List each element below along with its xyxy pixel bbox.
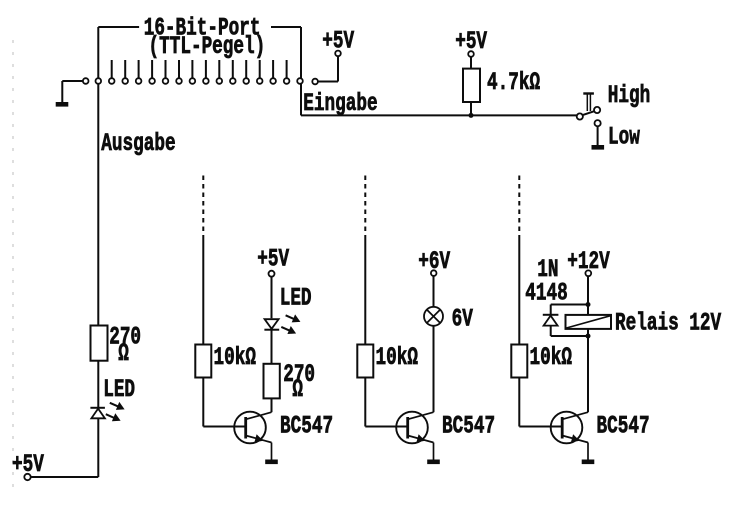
svg-text:+5V: +5V xyxy=(12,450,45,479)
terminal +5V (port right) xyxy=(335,51,341,57)
port pin 7 xyxy=(176,78,182,84)
svg-text:Ausgabe: Ausgabe xyxy=(101,129,175,158)
lamp 6V xyxy=(424,307,443,326)
port pin 12 xyxy=(243,78,249,84)
wire +6V to lamp xyxy=(433,276,435,307)
wire port bracket top-right xyxy=(271,26,301,28)
port pin 11 xyxy=(230,78,236,84)
wire 10k to base (Q1) xyxy=(202,378,204,427)
wire diode anode down xyxy=(550,326,552,336)
port pin 6 lead xyxy=(165,60,167,78)
wire plug to +5V xyxy=(318,81,338,83)
port pin 9 lead xyxy=(205,60,207,78)
svg-text:Ω: Ω xyxy=(118,339,129,368)
svg-text:BC547: BC547 xyxy=(597,412,650,441)
svg-text:Ω: Ω xyxy=(292,375,303,404)
scan artifact left edge xyxy=(12,40,14,492)
port pin 9 xyxy=(203,78,209,84)
svg-text:4.7kΩ: 4.7kΩ xyxy=(487,68,540,97)
wire R pullup to Eingabe line xyxy=(470,102,472,115)
switch lever knob xyxy=(594,107,600,113)
port pin 3 xyxy=(122,78,128,84)
wire 10k to base (Q3) xyxy=(518,378,520,427)
port pin 8 lead xyxy=(191,60,193,78)
wire base (Q3) xyxy=(519,426,562,428)
port pin 10 xyxy=(217,78,223,84)
wire base (Q1) xyxy=(203,426,245,428)
wire port left / Ausgabe column xyxy=(97,27,99,326)
switch lever xyxy=(583,111,595,115)
LED D2 light arrows xyxy=(281,314,300,334)
wire LED to 270 (Q1) xyxy=(271,330,273,364)
switch Low contact xyxy=(595,120,601,126)
svg-text:LED: LED xyxy=(103,375,135,404)
svg-text:10kΩ: 10kΩ xyxy=(530,343,572,372)
svg-text:Eingabe: Eingabe xyxy=(303,89,377,118)
terminal +5V (bottom) xyxy=(24,474,30,480)
wire 10k to base (Q2) xyxy=(364,378,366,427)
port pin 11 lead xyxy=(232,60,234,78)
ground (left) xyxy=(56,102,69,107)
svg-text:(TTL-Pegel): (TTL-Pegel) xyxy=(149,32,266,61)
relay coil xyxy=(566,315,612,329)
port pin 10 lead xyxy=(218,60,220,78)
+5V plug contact xyxy=(312,79,318,85)
wire to diode cathode xyxy=(550,305,552,315)
transistor Q1 BC547 xyxy=(234,412,278,464)
port pin 1 xyxy=(96,78,102,84)
transistor Q3 BC547 xyxy=(551,412,595,464)
svg-text:10kΩ: 10kΩ xyxy=(376,343,418,372)
diode 1N4148 xyxy=(543,315,559,326)
port pin 6 xyxy=(163,78,169,84)
wire port bracket top-left xyxy=(98,26,139,28)
svg-text:6V: 6V xyxy=(452,305,474,334)
junction Eingabe/pullup xyxy=(469,113,474,118)
wire R270 to LED xyxy=(97,361,99,408)
svg-text:10kΩ: 10kΩ xyxy=(214,343,256,372)
wire up to +5V xyxy=(337,56,339,81)
port pin 14 lead xyxy=(272,60,274,78)
port pin 15 lead xyxy=(286,60,288,78)
ground (Low) xyxy=(592,145,605,150)
resistor 4.7k xyxy=(463,69,480,102)
wire +5V to LED (Q1) xyxy=(271,277,273,319)
wire collector (Q1) xyxy=(271,398,273,412)
port pin 2 lead xyxy=(111,60,113,78)
svg-text:+5V: +5V xyxy=(257,245,290,274)
wire relay to junction xyxy=(587,329,589,336)
svg-text:Relais 12V: Relais 12V xyxy=(615,309,722,338)
terminal +5V (pullup) xyxy=(468,51,474,57)
port pin 4 xyxy=(136,78,142,84)
svg-text:LED: LED xyxy=(280,284,312,313)
switch pole contact xyxy=(577,113,583,119)
resistor 10k (Q1) xyxy=(195,345,211,378)
LED D1 (output branch) xyxy=(90,408,105,419)
port pin 16 xyxy=(297,78,303,84)
port pin 7 lead xyxy=(178,60,180,78)
resistor 10k (Q3) xyxy=(511,345,527,378)
resistor 270 (Q1) xyxy=(264,364,280,399)
wire to 10k (Q1) xyxy=(202,235,204,345)
junction diode bottom xyxy=(586,334,591,339)
wire diode loop bottom xyxy=(551,335,588,337)
LED D2 (Q1 collector) xyxy=(264,319,279,330)
junction diode top xyxy=(586,302,591,307)
port pin 14 xyxy=(270,78,276,84)
port pin 5 lead xyxy=(151,60,153,78)
port pin 3 lead xyxy=(124,60,126,78)
svg-text:Low: Low xyxy=(608,123,640,152)
wire collector (Q2) xyxy=(433,326,435,412)
svg-text:High: High xyxy=(608,81,650,110)
terminal +5V (LED driver) xyxy=(269,271,275,277)
port pin 2 xyxy=(109,78,115,84)
wire into relay xyxy=(587,305,589,315)
port pin 13 lead xyxy=(259,60,261,78)
transistor Q2 BC547 xyxy=(396,412,440,464)
svg-text:4148: 4148 xyxy=(525,278,567,307)
ground plug contact xyxy=(83,78,89,84)
wire +5V rail bottom xyxy=(31,476,99,478)
wire base (Q2) xyxy=(365,426,407,428)
svg-text:BC547: BC547 xyxy=(280,412,333,441)
wire dashed port feed (Q2) xyxy=(364,176,366,236)
wire ground stem xyxy=(61,81,63,102)
svg-text:+5V: +5V xyxy=(322,26,355,55)
relay diagonal xyxy=(566,316,610,328)
wire dashed port feed (Q1) xyxy=(202,176,204,236)
wire Low to ground xyxy=(597,126,599,145)
wire Eingabe line xyxy=(301,114,577,116)
svg-text:BC547: BC547 xyxy=(442,412,495,441)
port pin 15 xyxy=(284,78,290,84)
terminal +12V xyxy=(585,270,591,276)
wire dashed port feed (Q3) xyxy=(518,176,520,236)
resistor 270 (output branch) xyxy=(91,326,108,361)
wire +12V down xyxy=(587,276,589,304)
resistor 10k (Q2) xyxy=(357,345,373,378)
wire diode loop top xyxy=(551,304,588,306)
wire LED to +5V rail xyxy=(97,418,99,477)
port pin 8 xyxy=(190,78,196,84)
wire to 10k (Q2) xyxy=(364,235,366,345)
switch High contact xyxy=(583,94,594,112)
terminal +6V xyxy=(431,270,437,276)
LED D1 light arrows xyxy=(106,402,125,421)
wire ground plug to pin1 xyxy=(62,80,82,82)
wire collector (Q3) xyxy=(587,336,589,412)
wire to 10k (Q3) xyxy=(518,235,520,345)
port pin 12 lead xyxy=(245,60,247,78)
wire +5V to R pullup xyxy=(470,57,472,69)
port pin 5 xyxy=(149,78,155,84)
port pin 4 lead xyxy=(138,60,140,78)
wire port right / Eingabe drop xyxy=(300,27,302,115)
port pin 13 xyxy=(257,78,263,84)
